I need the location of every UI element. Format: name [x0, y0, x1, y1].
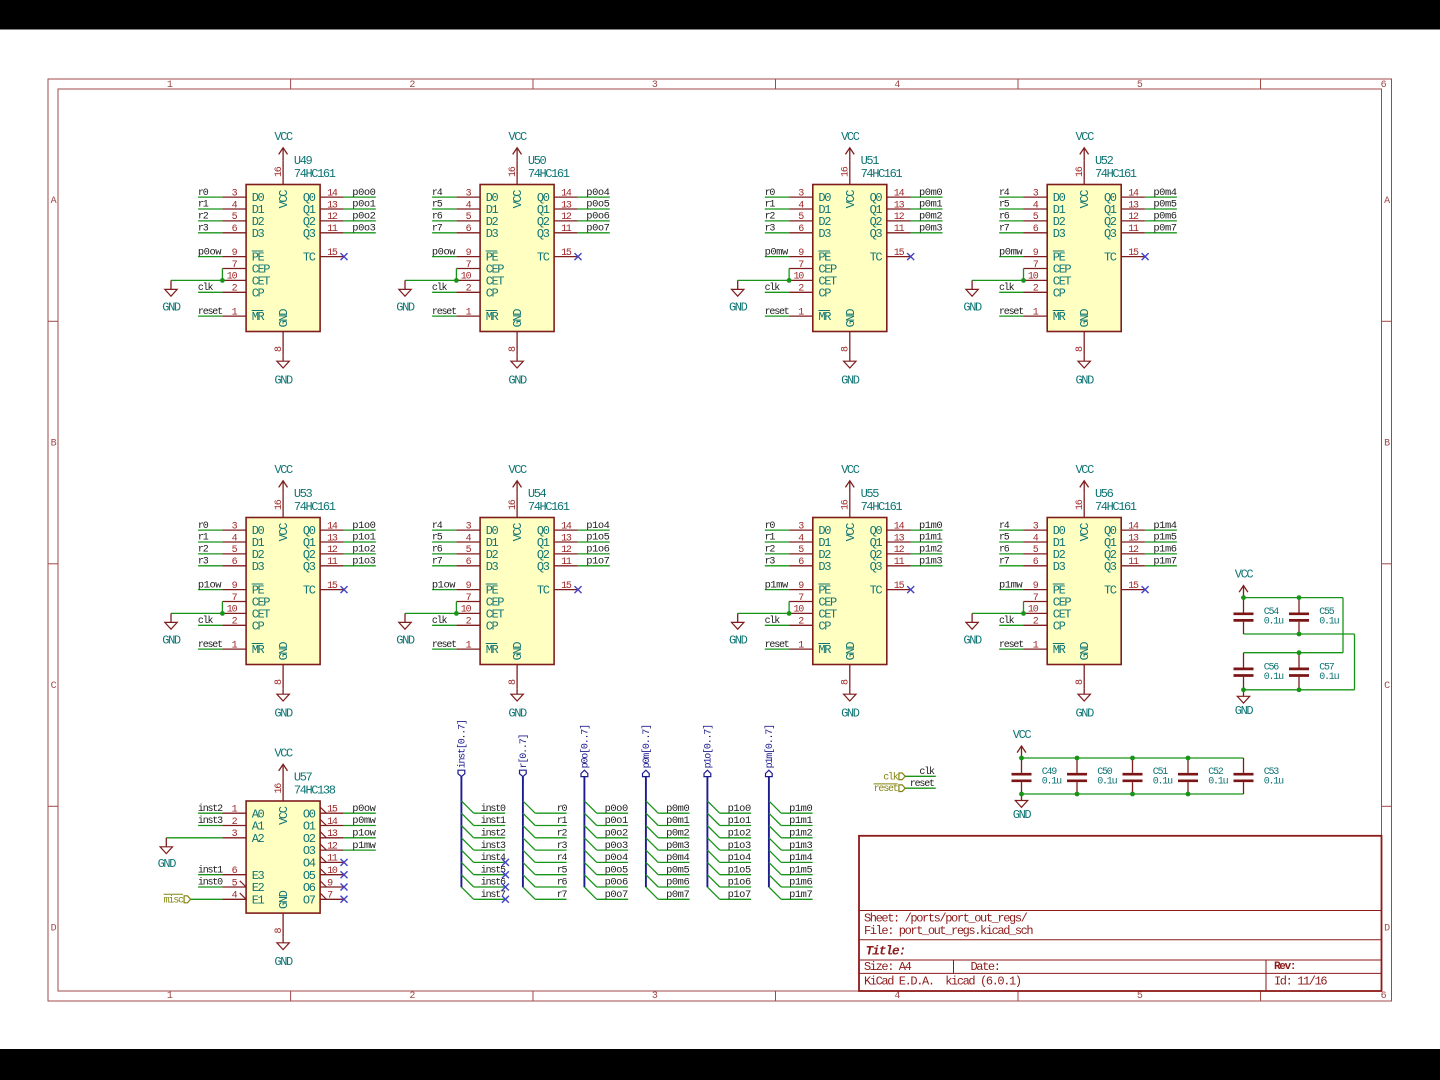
svg-text:11: 11 [1128, 557, 1139, 568]
svg-text:MR: MR [818, 643, 831, 657]
svg-text:11: 11 [1128, 224, 1139, 235]
svg-text:14: 14 [327, 521, 338, 532]
wire r4 to U56 [999, 529, 1023, 531]
bus entry p1o1 [707, 813, 719, 825]
svg-text:p1m0: p1m0 [789, 803, 812, 815]
svg-text:p0o7: p0o7 [605, 889, 628, 901]
bus entry inst5 [461, 862, 473, 874]
svg-text:r5: r5 [432, 533, 443, 544]
svg-text:10: 10 [1028, 272, 1039, 283]
U49 pin 12 (Q2) [320, 212, 344, 223]
wire r1 to U53 [198, 541, 222, 543]
wire p1m3 [781, 849, 812, 851]
svg-text:GND: GND [158, 857, 177, 871]
wire r7 to U56 [999, 565, 1023, 567]
power GND below U53 [274, 688, 293, 720]
svg-text:Size: A4: Size: A4 [864, 960, 912, 974]
bus entry inst7 [461, 887, 473, 899]
svg-text:GND: GND [274, 955, 293, 969]
svg-text:p0o1: p0o1 [352, 199, 375, 211]
svg-text:74HC138: 74HC138 [294, 784, 336, 798]
svg-text:14: 14 [894, 188, 905, 199]
svg-text:clk: clk [999, 615, 1015, 627]
svg-text:12: 12 [327, 841, 338, 852]
svg-text:VCC: VCC [274, 463, 293, 477]
U52 pin 5 (D2) [1024, 212, 1048, 223]
wire p1mw from U57 [344, 849, 376, 851]
svg-text:11: 11 [561, 557, 572, 568]
wire r0 to U55 [765, 529, 789, 531]
U55 pin 9 (PE) [789, 581, 813, 592]
U56 pin 5 (D2) [1024, 545, 1048, 556]
U52 pin 7 (CEP) [1024, 260, 1048, 271]
wire p0m1 [658, 825, 689, 827]
U57 pin 14 (O1) [320, 817, 344, 828]
U50 pin 10 (CET) [456, 272, 480, 283]
bus entry r7 [523, 887, 535, 899]
U49 pin 1 (MR) [222, 307, 246, 318]
svg-text:inst7: inst7 [481, 889, 506, 901]
U57 pin 9 (O6) [320, 878, 344, 889]
power GND left of U56 [963, 613, 982, 647]
bus entry r2 [523, 826, 535, 838]
power GND below U57 [274, 937, 293, 969]
svg-text:r4: r4 [999, 521, 1010, 532]
U49 pin 5 (D2) [222, 212, 246, 223]
power GND below U56 [1076, 688, 1095, 720]
wire clk to U54 CP [432, 624, 456, 626]
wire r4 [535, 861, 566, 863]
no-connect on U57 O4 [341, 859, 348, 866]
svg-text:r7: r7 [432, 557, 443, 568]
svg-text:13: 13 [327, 829, 338, 840]
svg-text:p1m2: p1m2 [789, 828, 812, 840]
svg-text:TC: TC [1104, 584, 1117, 598]
bus entry p0o0 [584, 801, 596, 813]
U55 pin 13 (Q1) [887, 533, 911, 544]
svg-text:11: 11 [327, 854, 338, 865]
IC U52 74HC161 body [1047, 154, 1137, 331]
no-connect on inst7 [502, 896, 509, 903]
svg-text:p1mw: p1mw [352, 840, 376, 852]
U49 pin 9 (PE) [222, 248, 246, 259]
svg-text:Q3: Q3 [870, 227, 883, 241]
U53 pin 16 (VCC) [274, 494, 285, 518]
wire reset to U50 MR [432, 315, 456, 317]
svg-text:0.1u: 0.1u [1042, 777, 1062, 788]
U56 pin 16 (VCC) [1075, 494, 1086, 518]
wire p0o3 from U49 [344, 232, 376, 234]
title block row lines [859, 911, 1382, 992]
svg-text:10: 10 [227, 272, 238, 283]
power GND left of U51 [729, 280, 748, 314]
svg-text:A2: A2 [252, 832, 265, 846]
hierarchical label p1m[0..7] [764, 725, 776, 777]
wire r0 to U49 [198, 196, 222, 198]
bus entry p1o2 [707, 826, 719, 838]
svg-text:p0mw: p0mw [765, 246, 789, 258]
wire p0mw to U51 PE [765, 256, 789, 258]
svg-text:reset: reset [198, 640, 222, 651]
svg-text:VCC: VCC [1076, 463, 1095, 477]
U52 pin 2 (CP) [1024, 284, 1048, 295]
U49 pin 2 (CP) [222, 284, 246, 295]
power GND below U51 [841, 355, 860, 387]
power VCC at U56 pin 16 [1076, 463, 1095, 494]
svg-text:p0m2: p0m2 [666, 828, 689, 840]
svg-text:U50: U50 [528, 154, 547, 168]
svg-text:p1m3: p1m3 [919, 556, 942, 568]
wire p0o1 [597, 825, 628, 827]
hierarchical label misc [164, 894, 191, 906]
svg-text:clk: clk [765, 282, 781, 294]
svg-text:U51: U51 [861, 154, 880, 168]
no-connect on U49 TC [341, 253, 348, 260]
hierarchical label reset [874, 784, 906, 795]
svg-text:D3: D3 [486, 560, 499, 574]
bus entry p0m1 [646, 813, 658, 825]
svg-text:GND: GND [844, 309, 858, 328]
wire r2 to U49 [198, 220, 222, 222]
svg-text:inst6: inst6 [481, 877, 506, 889]
bus entry p0o3 [584, 838, 596, 850]
wire p0m5 from U52 [1145, 208, 1177, 210]
U57 pin 7 (O7) [320, 891, 344, 902]
wire p0m0 [658, 812, 689, 814]
svg-text:p0o7: p0o7 [586, 223, 609, 235]
svg-text:p1o3: p1o3 [728, 840, 751, 852]
wire p0m2 [658, 837, 689, 839]
svg-text:14: 14 [327, 817, 338, 828]
svg-text:GND: GND [841, 707, 860, 721]
wire p0m6 from U52 [1145, 220, 1177, 222]
svg-text:VCC: VCC [1078, 523, 1092, 542]
wire inst0 [474, 812, 505, 814]
wire p0m5 [658, 874, 689, 876]
svg-text:r6: r6 [557, 878, 568, 889]
power VCC at U57 pin 16 [274, 746, 293, 777]
wire r3 to U51 [765, 232, 789, 234]
svg-text:15: 15 [561, 581, 572, 592]
svg-text:15: 15 [561, 248, 572, 259]
wire r2 to U55 [765, 553, 789, 555]
U50 pin 12 (Q2) [554, 212, 578, 223]
U57 pin 16 (VCC) [274, 777, 285, 801]
bus entry p0o4 [584, 850, 596, 862]
U54 pin 5 (D2) [456, 545, 480, 556]
svg-text:0.1u: 0.1u [1319, 617, 1339, 628]
bus entry p1o6 [707, 875, 719, 887]
wire p0o2 [597, 837, 628, 839]
svg-text:CP: CP [818, 619, 831, 633]
power GND left of U50 [396, 280, 415, 314]
junction at U53 CET [220, 611, 225, 616]
wire clk [905, 775, 936, 777]
bus entry p0o5 [584, 862, 596, 874]
svg-text:10: 10 [461, 272, 472, 283]
IC U53 74HC161 body [246, 487, 336, 664]
power GND left of U53 [162, 613, 181, 647]
wire p0o7 [597, 898, 628, 900]
wire r1 to U55 [765, 541, 789, 543]
wire p0m0 from U51 [911, 196, 943, 198]
wire CEP to CET tie at U50 [455, 269, 457, 281]
svg-text:r2: r2 [557, 829, 568, 840]
wire r2 to U53 [198, 553, 222, 555]
IC U54 74HC161 body [480, 487, 570, 664]
no-connect on U52 TC [1142, 253, 1149, 260]
wire p1m6 from U56 [1145, 553, 1177, 555]
wire reset to U56 MR [999, 648, 1023, 650]
junction at U50 CET [454, 278, 459, 283]
wire p1ow from U57 [344, 837, 376, 839]
svg-text:p0ow: p0ow [432, 246, 456, 258]
svg-text:11: 11 [894, 224, 905, 235]
wire p0m3 from U51 [911, 232, 943, 234]
wire p1ow to U53 PE [198, 589, 222, 591]
svg-text:r0: r0 [198, 521, 209, 532]
svg-text:p1o3: p1o3 [352, 556, 375, 568]
bus entry inst0 [461, 801, 473, 813]
wire clk to U49 CP [198, 291, 222, 293]
bus entry p0o1 [584, 813, 596, 825]
svg-text:p0ow: p0ow [198, 246, 222, 258]
bus entry r1 [523, 813, 535, 825]
U56 pin 15 (TC) [1121, 581, 1145, 592]
svg-text:14: 14 [1128, 521, 1139, 532]
wire p0ow from U57 [344, 812, 376, 814]
U57 pin 1 (A0) [222, 805, 246, 816]
no-connect on U56 TC [1142, 586, 1149, 593]
svg-text:10: 10 [461, 605, 472, 616]
bus entry p1m4 [769, 850, 781, 862]
svg-text:15: 15 [894, 581, 905, 592]
wire reset to U54 MR [432, 648, 456, 650]
wire p1m7 [781, 898, 812, 900]
wire r6 to U52 [999, 220, 1023, 222]
svg-text:inst3: inst3 [481, 840, 506, 852]
wire right drop 1 [1342, 598, 1344, 653]
power VCC at U53 pin 16 [274, 463, 293, 494]
wire p1o2 [720, 837, 751, 839]
wire r2 [535, 837, 566, 839]
svg-text:r1: r1 [198, 200, 209, 211]
svg-text:15: 15 [327, 805, 338, 816]
svg-text:Q3: Q3 [1104, 227, 1117, 241]
U51 pin 11 (Q3) [887, 224, 911, 235]
bus entry p1o7 [707, 887, 719, 899]
wire p1o3 from U53 [344, 565, 376, 567]
svg-text:74HC161: 74HC161 [1095, 167, 1137, 181]
bus entry p0m3 [646, 838, 658, 850]
junction at U49 CET [220, 278, 225, 283]
wire p0o0 from U49 [344, 196, 376, 198]
svg-text:74HC161: 74HC161 [294, 500, 336, 514]
svg-text:reset: reset [432, 640, 456, 651]
svg-text:Q3: Q3 [537, 227, 550, 241]
svg-text:CP: CP [1053, 286, 1066, 300]
svg-text:TC: TC [870, 251, 883, 265]
bus entry inst4 [461, 850, 473, 862]
svg-text:MR: MR [1053, 310, 1066, 324]
wire p1m7 from U56 [1145, 565, 1177, 567]
power VCC at U49 pin 16 [274, 130, 293, 161]
svg-text:VCC: VCC [277, 190, 291, 209]
wire p0mw from U57 [344, 825, 376, 827]
U57 pin 13 (O2) [320, 829, 344, 840]
capacitor C49 [1012, 758, 1032, 794]
U51 pin 5 (D2) [789, 212, 813, 223]
U54 pin 10 (CET) [456, 605, 480, 616]
svg-text:r3: r3 [198, 557, 209, 568]
bus entry inst3 [461, 838, 473, 850]
svg-text:reset: reset [874, 784, 898, 795]
U54 pin 11 (Q3) [554, 557, 578, 568]
svg-text:VCC: VCC [1078, 190, 1092, 209]
svg-text:r5: r5 [432, 200, 443, 211]
svg-text:74HC161: 74HC161 [861, 167, 903, 181]
svg-text:r4: r4 [432, 521, 443, 532]
U55 pin 8 (GND) [841, 665, 852, 689]
wire r7 to U52 [999, 232, 1023, 234]
U53 pin 1 (MR) [222, 640, 246, 651]
bus entry p1m2 [769, 826, 781, 838]
svg-text:r2: r2 [198, 545, 209, 556]
svg-text:CP: CP [252, 286, 265, 300]
svg-text:p0m[0..7]: p0m[0..7] [641, 725, 653, 768]
svg-text:D3: D3 [818, 560, 831, 574]
svg-text:TC: TC [870, 584, 883, 598]
svg-text:Rev:: Rev: [1274, 961, 1295, 973]
bus p1m[0..7] [768, 777, 770, 888]
U51 pin 6 (D3) [789, 224, 813, 235]
svg-text:GND: GND [511, 642, 525, 661]
power VCC at C54 [1235, 568, 1254, 598]
wire inst6 [474, 886, 505, 888]
wire r5 to U56 [999, 541, 1023, 543]
no-connect on U54 TC [575, 586, 582, 593]
wire r2 to U51 [765, 220, 789, 222]
svg-text:12: 12 [894, 212, 905, 223]
svg-text:reset: reset [198, 307, 222, 318]
power GND left of U52 [963, 280, 982, 314]
wire CEP to CET tie at U52 [1023, 269, 1025, 281]
svg-text:GND: GND [1076, 707, 1095, 721]
power GND below U54 [508, 688, 527, 720]
wire p1o7 [720, 898, 751, 900]
svg-text:p1o2: p1o2 [728, 828, 751, 840]
junction at U52 CET [1021, 278, 1026, 283]
wire p1o6 [720, 886, 751, 888]
svg-text:p1ow: p1ow [432, 579, 456, 591]
svg-text:p0o0: p0o0 [605, 803, 628, 815]
U53 pin 2 (CP) [222, 617, 246, 628]
svg-text:r6: r6 [432, 212, 443, 223]
U55 pin 11 (Q3) [887, 557, 911, 568]
U49 pin 16 (VCC) [274, 161, 285, 185]
bus entry p1m6 [769, 875, 781, 887]
U56 pin 14 (Q0) [1121, 521, 1145, 532]
wire reset to U51 MR [765, 315, 789, 317]
junctions C54-C57 [1241, 595, 1301, 692]
svg-text:D3: D3 [818, 227, 831, 241]
bus entry p1m3 [769, 838, 781, 850]
no-connect on inst5 [502, 871, 509, 878]
IC U57 74HC138 body [246, 771, 336, 913]
U55 pin 1 (MR) [789, 640, 813, 651]
svg-text:VCC: VCC [841, 463, 860, 477]
svg-text:p0m2: p0m2 [919, 211, 942, 223]
svg-text:11: 11 [894, 557, 905, 568]
wire p0o4 [597, 861, 628, 863]
svg-text:16: 16 [274, 783, 285, 794]
U56 pin 1 (MR) [1024, 640, 1048, 651]
svg-text:14: 14 [894, 521, 905, 532]
svg-text:0.1u: 0.1u [1208, 777, 1228, 788]
wire p0m3 [658, 849, 689, 851]
svg-text:r5: r5 [557, 865, 568, 876]
hierarchical label p1o[0..7] [703, 725, 715, 777]
svg-text:VCC: VCC [1013, 728, 1032, 742]
svg-text:13: 13 [327, 200, 338, 211]
bus entry p1o0 [707, 801, 719, 813]
U50 pin 1 (MR) [456, 307, 480, 318]
wire p0ow to U50 PE [432, 256, 456, 258]
bus entry r4 [523, 850, 535, 862]
svg-text:p1m2: p1m2 [919, 544, 942, 556]
svg-text:GND: GND [277, 309, 291, 328]
svg-text:p1m7: p1m7 [1153, 556, 1176, 568]
svg-text:p1o7: p1o7 [586, 556, 609, 568]
U53 pin 4 (D1) [222, 533, 246, 544]
wire p0m1 from U51 [911, 208, 943, 210]
wire inst2 [474, 837, 505, 839]
sheet frame inner border [58, 89, 1382, 991]
svg-text:p0o1: p0o1 [605, 815, 628, 827]
svg-text:GND: GND [508, 707, 527, 721]
svg-text:r0: r0 [557, 804, 568, 815]
svg-text:r6: r6 [999, 212, 1010, 223]
svg-text:p0m4: p0m4 [666, 852, 689, 864]
U56 pin 12 (Q2) [1121, 545, 1145, 556]
no-connect on U57 O6 [341, 884, 348, 891]
svg-text:p1m5: p1m5 [789, 864, 812, 876]
no-connect on U55 TC [907, 586, 914, 593]
wire p1o4 [720, 861, 751, 863]
svg-text:inst2: inst2 [198, 803, 223, 815]
svg-text:p1o7: p1o7 [728, 889, 751, 901]
svg-text:16: 16 [1075, 499, 1086, 510]
svg-text:VCC: VCC [844, 190, 858, 209]
svg-text:12: 12 [1128, 545, 1139, 556]
wire CEP to CET tie at U51 [788, 269, 790, 281]
svg-text:clk: clk [999, 282, 1015, 294]
capacitor C50 [1067, 758, 1087, 794]
svg-text:p0o4: p0o4 [586, 187, 609, 199]
wire p1o5 [720, 874, 751, 876]
svg-text:KiCad E.D.A. kicad (6.0.1): KiCad E.D.A. kicad (6.0.1) [864, 974, 1021, 988]
U55 pin 7 (CEP) [789, 593, 813, 604]
U56 pin 4 (D1) [1024, 533, 1048, 544]
svg-text:14: 14 [327, 188, 338, 199]
svg-text:16: 16 [508, 499, 519, 510]
svg-text:p0o2: p0o2 [605, 828, 628, 840]
U49 pin 3 (D0) [222, 188, 246, 199]
wire right drop 2 [1354, 634, 1356, 690]
svg-text:14: 14 [561, 521, 572, 532]
U54 pin 6 (D3) [456, 557, 480, 568]
svg-text:p1m[0..7]: p1m[0..7] [764, 725, 776, 768]
